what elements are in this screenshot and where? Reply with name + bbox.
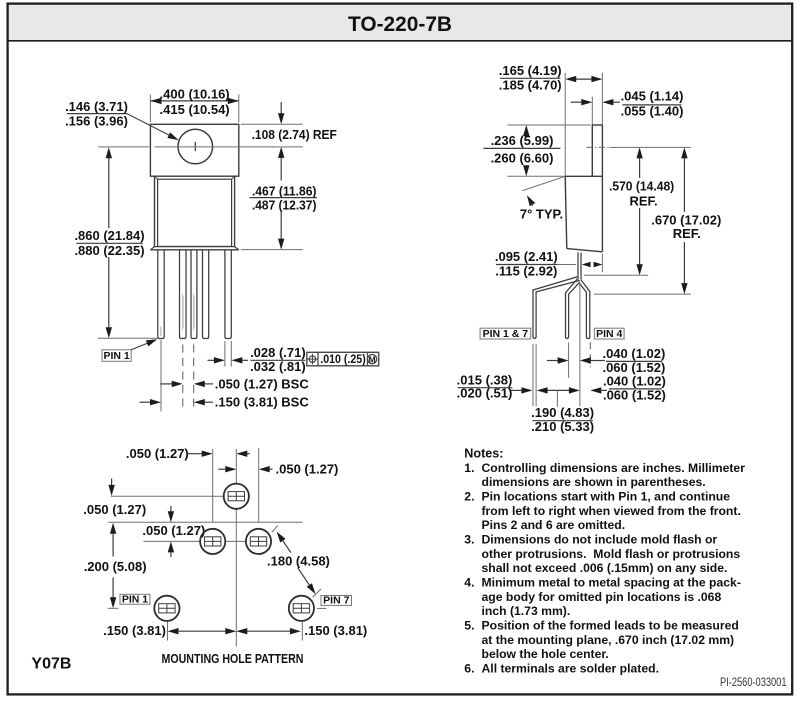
svg-text:PI-2560-033001: PI-2560-033001 [720, 677, 787, 689]
svg-text:.860 (21.84): .860 (21.84) [74, 228, 144, 243]
svg-text:at the mounting plane, .670 in: at the mounting plane, .670 inch (17.02 … [482, 633, 735, 647]
svg-text:age body for omitted pin locat: age body for omitted pin locations is .0… [482, 590, 722, 604]
svg-text:.032 (.81): .032 (.81) [250, 359, 306, 374]
svg-text:2.: 2. [464, 490, 474, 504]
svg-text:5.: 5. [464, 619, 474, 633]
svg-text:dimensions are shown in parent: dimensions are shown in parentheses. [482, 475, 706, 489]
svg-text:.050 (1.27): .050 (1.27) [142, 523, 205, 538]
svg-text:Position of the formed leads t: Position of the formed leads to be measu… [482, 619, 739, 633]
svg-text:.210 (5.33): .210 (5.33) [531, 419, 594, 434]
svg-text:.200 (5.08): .200 (5.08) [84, 559, 147, 574]
svg-text:PIN 7: PIN 7 [323, 595, 349, 607]
svg-text:Controlling dimensions are inc: Controlling dimensions are inches. Milli… [482, 461, 746, 475]
svg-text:Y07B: Y07B [31, 656, 71, 673]
svg-text:.060 (1.52): .060 (1.52) [603, 387, 666, 402]
svg-text:PIN 1 & 7: PIN 1 & 7 [483, 328, 529, 340]
svg-text:.020 (.51): .020 (.51) [457, 386, 513, 401]
svg-text:.050 (1.27): .050 (1.27) [126, 446, 189, 461]
svg-text:.165 (4.19): .165 (4.19) [499, 63, 562, 78]
svg-text:.400 (10.16): .400 (10.16) [160, 86, 230, 101]
svg-text:.467 (11.86): .467 (11.86) [252, 183, 317, 198]
svg-text:REF.: REF. [630, 193, 658, 208]
svg-text:.050 (1.27): .050 (1.27) [83, 502, 146, 517]
svg-text:.050 (1.27) BSC: .050 (1.27) BSC [215, 376, 310, 391]
svg-text:.150 (3.81): .150 (3.81) [304, 623, 367, 638]
svg-text:REF.: REF. [673, 226, 701, 241]
svg-text:TO-220-7B: TO-220-7B [348, 12, 452, 36]
svg-text:shall not exceed .006 (.15mm): shall not exceed .006 (.15mm) on any sid… [482, 561, 728, 575]
svg-text:3.: 3. [464, 533, 474, 547]
svg-text:MOUNTING HOLE PATTERN: MOUNTING HOLE PATTERN [162, 651, 304, 666]
svg-text:.880 (22.35): .880 (22.35) [74, 243, 144, 258]
svg-text:.045 (1.14): .045 (1.14) [621, 89, 684, 104]
svg-text:from left to right when viewed: from left to right when viewed from the … [482, 504, 741, 518]
svg-text:.236 (5.99): .236 (5.99) [491, 133, 554, 148]
svg-text:.115 (2.92): .115 (2.92) [495, 263, 557, 278]
svg-text:Notes:: Notes: [464, 447, 503, 461]
svg-text:PIN 1: PIN 1 [122, 594, 148, 606]
svg-text:Pins 2 and 6 are omitted.: Pins 2 and 6 are omitted. [482, 518, 626, 532]
svg-text:.010 (.25): .010 (.25) [320, 354, 366, 366]
svg-text:PIN 1: PIN 1 [103, 350, 129, 362]
svg-text:M: M [369, 355, 376, 365]
svg-text:.050 (1.27): .050 (1.27) [276, 461, 339, 476]
svg-text:.146 (3.71): .146 (3.71) [65, 99, 128, 114]
svg-text:.156 (3.96): .156 (3.96) [65, 113, 128, 128]
svg-text:.108 (2.74) REF: .108 (2.74) REF [252, 127, 337, 142]
svg-text:.570 (14.48): .570 (14.48) [609, 179, 674, 194]
svg-text:Pin locations start with Pin 1: Pin locations start with Pin 1, and cont… [482, 490, 731, 504]
svg-text:6.: 6. [464, 662, 474, 676]
svg-text:PIN 4: PIN 4 [596, 328, 622, 340]
svg-text:4.: 4. [464, 576, 474, 590]
svg-text:1.: 1. [464, 461, 474, 475]
svg-text:.028 (.71): .028 (.71) [250, 345, 306, 360]
svg-text:.150 (3.81) BSC: .150 (3.81) BSC [215, 395, 310, 410]
svg-text:.055 (1.40): .055 (1.40) [621, 104, 684, 119]
svg-text:.190 (4.83): .190 (4.83) [531, 405, 594, 420]
svg-text:Minimum metal to metal spacing: Minimum metal to metal spacing at the pa… [482, 576, 741, 590]
svg-text:All terminals are solder plate: All terminals are solder plated. [482, 662, 659, 676]
svg-text:.150 (3.81): .150 (3.81) [103, 623, 166, 638]
svg-text:.095 (2.41): .095 (2.41) [495, 249, 558, 264]
svg-text:inch (1.73 mm).: inch (1.73 mm). [482, 604, 571, 618]
svg-text:other protrusions. Mold flash: other protrusions. Mold flash or protrus… [482, 547, 741, 561]
svg-text:.415 (10.54): .415 (10.54) [160, 102, 230, 117]
svg-text:Dimensions do not include mold: Dimensions do not include mold flash or [482, 533, 718, 547]
svg-text:.180 (4.58): .180 (4.58) [267, 553, 330, 568]
svg-text:.487 (12.37): .487 (12.37) [252, 197, 317, 212]
svg-text:.185 (4.70): .185 (4.70) [499, 77, 562, 92]
svg-text:7° TYP.: 7° TYP. [520, 206, 563, 221]
svg-text:below the hole center.: below the hole center. [482, 647, 609, 661]
svg-text:.040 (1.02): .040 (1.02) [602, 346, 665, 361]
svg-text:.040 (1.02): .040 (1.02) [603, 373, 666, 388]
svg-text:.260 (6.60): .260 (6.60) [491, 150, 554, 165]
